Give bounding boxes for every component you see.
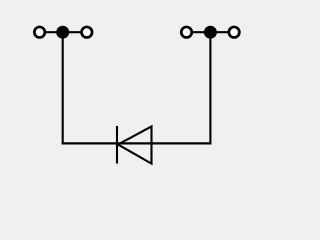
diode D1: anode triangle (pointing left) — [118, 126, 152, 163]
wire: bottom run, segment through diode body — [117, 142, 152, 144]
diode D1: cathode bar — [116, 126, 118, 164]
wire: bottom run, left segment to diode cathode — [62, 142, 117, 144]
wire: bottom run, diode to right vertical — [152, 142, 212, 144]
terminal contact 1.2 (open circle, right) — [82, 27, 93, 38]
terminal contact 2.2 (open circle, right) — [229, 27, 240, 38]
wire: right vertical drop — [209, 32, 211, 144]
terminal contact 2.1 (open circle, left) — [181, 27, 192, 38]
node: left common junction (filled dot) — [56, 26, 69, 39]
wire: left vertical drop — [62, 32, 64, 144]
node: right common junction (filled dot) — [204, 26, 217, 39]
wire: right terminal jumper bar — [187, 31, 235, 33]
terminal contact 1.1 (open circle, left) — [34, 27, 45, 38]
wire: left terminal jumper bar — [40, 31, 87, 33]
